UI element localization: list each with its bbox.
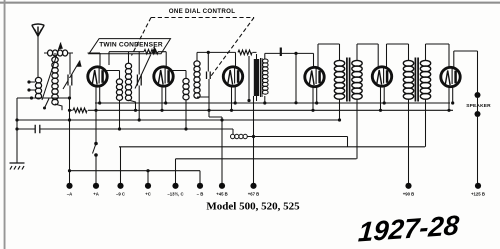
- svg-text:– B: – B: [197, 192, 204, 197]
- svg-text:+90 B: +90 B: [403, 192, 415, 197]
- svg-text:+67 B: +67 B: [248, 192, 260, 197]
- svg-text:SPEAKER: SPEAKER: [466, 103, 491, 109]
- svg-text:TWIN CONDENSER: TWIN CONDENSER: [99, 41, 163, 48]
- svg-text:–A: –A: [67, 192, 73, 197]
- svg-text:Model 500, 520, 525: Model 500, 520, 525: [206, 201, 300, 213]
- svg-text:+125 B: +125 B: [471, 192, 485, 197]
- svg-text:+C: +C: [145, 192, 151, 197]
- svg-text:+A: +A: [93, 192, 99, 197]
- svg-text:+45 B: +45 B: [216, 192, 228, 197]
- svg-text:–9 C: –9 C: [116, 192, 125, 197]
- svg-text:ONE DIAL CONTROL: ONE DIAL CONTROL: [169, 8, 236, 15]
- svg-text:–13½, C: –13½, C: [167, 192, 183, 197]
- svg-text:1927-28: 1927-28: [357, 209, 460, 247]
